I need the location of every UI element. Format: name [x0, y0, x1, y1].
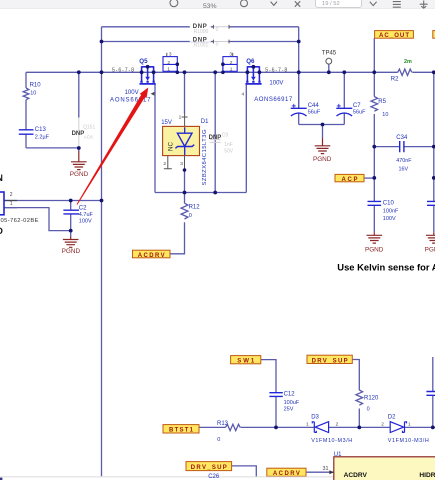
svg-text:D1: D1 — [201, 119, 209, 125]
svg-text:AONS66917: AONS66917 — [110, 98, 151, 104]
svg-text:DNP: DNP — [209, 135, 222, 141]
svg-text:3: 3 — [169, 52, 172, 58]
svg-text:Use Kelvin sense for AC: Use Kelvin sense for AC — [337, 262, 435, 273]
svg-text:D: D — [0, 226, 3, 236]
svg-text:1: 1 — [167, 67, 170, 73]
svg-text:PGND: PGND — [313, 156, 332, 163]
svg-text:R120: R120 — [364, 396, 379, 402]
svg-text:2: 2 — [10, 192, 13, 198]
svg-text:U1: U1 — [334, 452, 342, 458]
svg-text:R1001: R1001 — [194, 42, 209, 48]
svg-text:1nF: 1nF — [224, 142, 233, 148]
svg-text:1: 1 — [10, 201, 13, 207]
svg-text:0: 0 — [217, 437, 220, 443]
svg-text:5-6-7-8: 5-6-7-8 — [265, 67, 287, 73]
svg-text:ACP: ACP — [342, 177, 358, 183]
svg-text:HIDRV: HIDRV — [419, 472, 435, 479]
svg-text:1: 1 — [179, 114, 182, 120]
svg-text:ACDRV: ACDRV — [344, 472, 368, 479]
svg-text:C26: C26 — [208, 474, 220, 480]
svg-text:V1FM10-M3/H: V1FM10-M3/H — [311, 438, 352, 444]
svg-text:100V: 100V — [79, 219, 92, 225]
svg-text:C10: C10 — [383, 201, 395, 207]
svg-text:SZBZX84C15LT3G: SZBZX84C15LT3G — [202, 129, 208, 185]
svg-text:C13: C13 — [35, 127, 47, 133]
svg-text:Q151: Q151 — [83, 125, 95, 131]
svg-text:10: 10 — [30, 90, 36, 96]
svg-text:0: 0 — [216, 27, 219, 33]
svg-text:D3: D3 — [311, 414, 319, 420]
svg-text:1: 1 — [306, 421, 309, 427]
svg-text:D2: D2 — [388, 414, 396, 420]
svg-text:31: 31 — [323, 466, 329, 472]
svg-text:V1FM10-M3/H: V1FM10-M3/H — [388, 438, 429, 444]
svg-text:C2: C2 — [79, 206, 87, 212]
svg-text:BTST1: BTST1 — [169, 428, 194, 434]
svg-text:C34: C34 — [396, 135, 408, 141]
svg-text:05-762-02BE: 05-762-02BE — [1, 218, 39, 224]
svg-text:2m: 2m — [404, 59, 412, 65]
svg-text:2: 2 — [163, 161, 166, 167]
svg-text:2: 2 — [230, 60, 233, 66]
svg-text:SW1: SW1 — [237, 359, 255, 365]
svg-text:AONS66917: AONS66917 — [254, 97, 293, 103]
svg-text:PGND: PGND — [425, 247, 435, 254]
svg-text:DNP: DNP — [72, 131, 85, 137]
svg-text:N: N — [0, 173, 3, 183]
svg-text:DRV_SUP: DRV_SUP — [312, 358, 348, 364]
svg-text:PGND: PGND — [62, 248, 81, 255]
svg-text:4.7uF: 4.7uF — [79, 212, 94, 218]
svg-text:2.2µF: 2.2µF — [35, 135, 50, 141]
svg-text:19 / 52: 19 / 52 — [322, 1, 340, 7]
svg-text:2: 2 — [381, 421, 384, 427]
svg-text:3: 3 — [180, 161, 183, 167]
svg-text:1: 1 — [230, 67, 233, 73]
svg-text:C12: C12 — [284, 392, 296, 398]
svg-text:10: 10 — [382, 112, 388, 118]
svg-text:AC_OUT: AC_OUT — [379, 33, 409, 39]
svg-text:R1000: R1000 — [194, 29, 209, 35]
svg-text:0: 0 — [216, 41, 219, 47]
svg-text:1: 1 — [408, 421, 411, 427]
svg-text:NC: NC — [167, 141, 174, 151]
svg-text:100V: 100V — [125, 90, 139, 96]
svg-text:R10: R10 — [30, 83, 42, 89]
svg-text:2: 2 — [336, 421, 339, 427]
svg-text:TP45: TP45 — [322, 51, 337, 57]
svg-text:53%: 53% — [203, 3, 217, 10]
svg-text:ACDRV: ACDRV — [273, 471, 300, 477]
svg-text:DRV_SUP: DRV_SUP — [191, 465, 227, 471]
svg-text:C9: C9 — [222, 133, 229, 139]
svg-text:3: 3 — [229, 52, 232, 58]
svg-text:R5: R5 — [378, 99, 386, 105]
svg-text:ACDRV: ACDRV — [138, 253, 165, 259]
svg-text:100uF: 100uF — [284, 400, 300, 406]
svg-text:50V: 50V — [224, 149, 234, 155]
svg-text:5-6-7-8: 5-6-7-8 — [112, 67, 134, 73]
svg-text:25V: 25V — [284, 407, 294, 413]
svg-text:PGND: PGND — [70, 171, 89, 178]
svg-text:16V: 16V — [399, 166, 409, 172]
svg-text:100V: 100V — [269, 81, 283, 87]
svg-text:R12: R12 — [189, 204, 201, 210]
svg-text:Q6: Q6 — [246, 58, 255, 65]
svg-text:56uF: 56uF — [353, 109, 366, 115]
svg-text:0: 0 — [367, 407, 370, 413]
svg-text:PGND: PGND — [365, 247, 384, 254]
svg-text:R2: R2 — [391, 76, 399, 82]
svg-text:0: 0 — [189, 213, 192, 219]
svg-text:2: 2 — [167, 60, 170, 66]
svg-text:56uF: 56uF — [308, 109, 321, 115]
svg-text:4: 4 — [242, 91, 245, 97]
svg-text:15V: 15V — [161, 120, 172, 126]
svg-text:470nF: 470nF — [396, 158, 412, 164]
svg-text:C7: C7 — [353, 103, 361, 109]
svg-text:AO6: AO6 — [84, 135, 94, 140]
svg-text:Q5: Q5 — [139, 58, 148, 65]
svg-text:100V: 100V — [383, 216, 396, 222]
svg-text:R13: R13 — [217, 421, 229, 427]
svg-text:C44: C44 — [308, 103, 320, 109]
svg-text:100nF: 100nF — [383, 208, 399, 214]
